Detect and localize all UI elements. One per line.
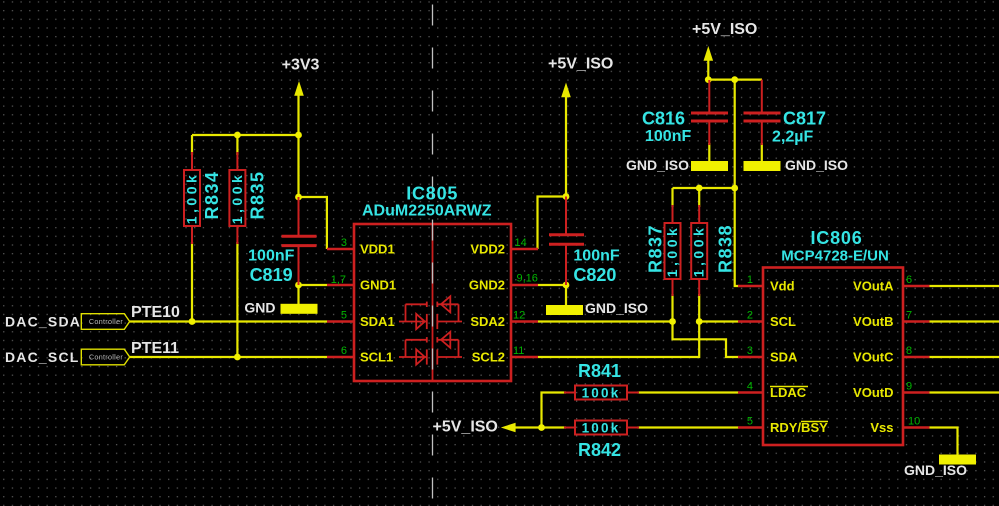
svg-text:1,00k: 1,00k: [229, 172, 245, 225]
svg-text:SCL: SCL: [770, 314, 796, 329]
IC806 pin 5 RDY/BSY stub: [738, 426, 763, 429]
resistor R838: [691, 205, 707, 296]
svg-text:14: 14: [515, 237, 527, 249]
isolator channel SDA diodes: [399, 296, 462, 329]
svg-text:C817: C817: [783, 109, 826, 129]
svg-text:VOutD: VOutD: [853, 385, 893, 400]
resistor R842: [564, 421, 639, 435]
svg-text:5: 5: [747, 416, 753, 428]
wire +3V3 stem: [297, 95, 299, 197]
capacitor C819: [282, 197, 317, 285]
svg-text:Controller: Controller: [89, 353, 123, 362]
wire C817 bottom to bar: [761, 143, 763, 162]
svg-text:10: 10: [908, 416, 920, 428]
svg-text:VOutC: VOutC: [853, 350, 894, 365]
svg-text:6: 6: [341, 345, 347, 357]
svg-text:GND_ISO: GND_ISO: [626, 157, 689, 173]
IC805 pin 14 VDD2 stub: [511, 248, 538, 251]
wire +3V3 to VDD1: [299, 197, 327, 249]
svg-text:R842: R842: [578, 440, 621, 460]
power +3V3 arrow: [294, 81, 304, 96]
svg-text:+3V3: +3V3: [282, 57, 320, 74]
wire GND2 to GND_ISO: [538, 284, 566, 286]
resistor R835: [229, 152, 245, 244]
resistor R834: [184, 152, 200, 244]
wire +5V_ISO to R842 left: [514, 426, 566, 428]
svg-text:100k: 100k: [582, 421, 621, 436]
svg-text:GND1: GND1: [360, 278, 396, 293]
junction +5V_ISO arrow/top horizontal: [705, 76, 712, 83]
svg-text:+5V_ISO: +5V_ISO: [548, 55, 613, 72]
svg-text:C819: C819: [250, 265, 293, 285]
IC806 pin 8 VOutC stub: [903, 356, 930, 359]
wire VOutD: [930, 391, 999, 393]
wire +5V_ISO top stem: [707, 61, 709, 80]
isolation barrier dashed line: [432, 0, 434, 506]
wire R838 bottom segment: [698, 294, 700, 322]
IC805 pin 6 SCL1 stub: [327, 356, 354, 359]
svg-text:SCL2: SCL2: [472, 350, 505, 365]
svg-text:8: 8: [906, 345, 912, 357]
IC805 pin 1,7 GND1 stub: [327, 284, 354, 287]
svg-text:Vss: Vss: [870, 420, 893, 435]
wire VDD2 to +5V_ISO: [538, 197, 567, 250]
wire VOutA: [930, 285, 999, 287]
svg-text:7: 7: [906, 310, 912, 322]
svg-text:9: 9: [906, 381, 912, 393]
svg-text:GND_ISO: GND_ISO: [904, 462, 967, 478]
IC806 pin 6 VOutA stub: [903, 285, 930, 288]
svg-text:GND2: GND2: [469, 278, 505, 293]
junction C820 bottom / GND2: [563, 282, 570, 289]
IC805 pin 5 SDA1 stub: [327, 320, 354, 323]
IC806 pin 3 SDA stub: [738, 356, 763, 359]
wire PTE10 net: [130, 320, 327, 322]
junction top horizontal/main vertical: [731, 76, 738, 83]
svg-text:100k: 100k: [582, 386, 621, 401]
svg-text:Controller: Controller: [89, 317, 123, 326]
controller tag PTE10 flag: [81, 314, 129, 330]
junction C819 top: [295, 194, 302, 201]
resistor R841: [564, 386, 639, 400]
svg-text:R835: R835: [248, 170, 268, 219]
junction SCL2/R838: [696, 318, 703, 325]
IC805 pin 12 SDA2 stub: [511, 320, 538, 323]
wire R838 top segment: [698, 188, 700, 207]
wire Vss to GND_ISO: [930, 428, 958, 456]
svg-text:GND_ISO: GND_ISO: [585, 300, 648, 316]
IC805 pin 3 VDD1 stub: [327, 248, 354, 251]
IC806 pin 10 Vss stub: [903, 426, 930, 429]
wire R835 top lead segment: [236, 135, 238, 155]
svg-text:VDD1: VDD1: [360, 242, 395, 257]
svg-text:100nF: 100nF: [645, 128, 691, 145]
wire SCL2 net: [538, 322, 699, 358]
junction R835 top feed: [234, 132, 241, 139]
svg-text:C816: C816: [642, 109, 685, 129]
junction C820 top: [563, 193, 570, 200]
IC806 pin 2 SCL stub: [738, 320, 763, 323]
ground GND bar: [281, 304, 318, 314]
capacitor C820: [549, 197, 584, 286]
svg-text:SDA1: SDA1: [360, 314, 395, 329]
IC806 pin 7 VOutB stub: [903, 320, 930, 323]
junction feed/main vertical: [731, 185, 738, 192]
svg-text:ADuM2250ARWZ: ADuM2250ARWZ: [362, 203, 492, 220]
power +5V_ISO arrow at R842 pointing left: [501, 423, 516, 433]
svg-text:R838: R838: [716, 224, 736, 273]
svg-text:R834: R834: [202, 170, 222, 219]
svg-text:C820: C820: [573, 265, 616, 285]
wire C816 bottom to bar: [708, 143, 710, 162]
junction PTE11/R835: [234, 354, 241, 361]
svg-text:+5V_ISO: +5V_ISO: [433, 419, 498, 436]
power +5V_ISO arrow at C820: [561, 83, 571, 98]
svg-text:4: 4: [747, 381, 753, 393]
svg-text:2: 2: [747, 310, 753, 322]
svg-text:VOutA: VOutA: [853, 279, 894, 294]
wire C819 to GND1: [299, 284, 328, 286]
svg-text:GND: GND: [244, 300, 275, 316]
ground GND_ISO bar at Vss: [939, 455, 976, 465]
svg-text:100nF: 100nF: [248, 248, 294, 265]
junction C819 bottom / GND1: [295, 282, 302, 289]
wire pullup feed horizontal: [673, 187, 735, 189]
IC806 pin 4 LDAC stub: [738, 391, 763, 394]
junction PTE10/R834: [189, 318, 196, 325]
wire VOutB: [930, 320, 999, 322]
ground GND_ISO bar at C820: [546, 305, 583, 315]
svg-text:IC806: IC806: [811, 228, 863, 248]
wire R837 top segment: [671, 188, 673, 207]
wire +5V_ISO stem at C820: [565, 97, 567, 197]
junction R841/R842 +5V_ISO: [538, 424, 545, 431]
wire SCL2 to IC806 SCL: [699, 320, 738, 322]
svg-text:+5V_ISO: +5V_ISO: [692, 21, 757, 38]
IC805 pin 9,16 GND2 stub: [511, 284, 538, 287]
svg-text:3: 3: [747, 345, 753, 357]
IC805 box: [354, 224, 511, 381]
junction SDA2/R837: [669, 318, 676, 325]
power +5V_ISO arrow top right: [704, 46, 714, 61]
svg-text:Vdd: Vdd: [770, 279, 795, 294]
svg-text:1,7: 1,7: [331, 274, 346, 286]
wire R837 bottom segment: [671, 294, 673, 322]
wire VOutC: [930, 356, 999, 358]
svg-text:1,00k: 1,00k: [691, 225, 707, 278]
svg-text:1,00k: 1,00k: [664, 225, 680, 278]
svg-text:9,16: 9,16: [517, 273, 538, 285]
svg-text:R837: R837: [646, 224, 666, 273]
wire R835 bottom segment to PTE11: [236, 242, 238, 357]
resistor R837: [665, 205, 681, 296]
wire R841 left elbow: [542, 393, 567, 428]
ground GND_ISO bar at C817: [744, 161, 781, 171]
wire SDA2 jog to IC806 SDA: [673, 322, 739, 358]
IC805 center barrier line: [432, 224, 434, 381]
svg-text:SCL1: SCL1: [360, 350, 393, 365]
wire C820 bottom to GND_ISO bar: [565, 285, 567, 305]
svg-text:MCP4728-E/UN: MCP4728-E/UN: [781, 247, 889, 264]
svg-text:1,00k: 1,00k: [184, 172, 200, 225]
junction R838 feed: [696, 185, 703, 192]
wire +3V3 feed horizontal: [192, 134, 299, 136]
isolator channel SCL diodes: [399, 332, 462, 365]
svg-text:GND_ISO: GND_ISO: [785, 157, 848, 173]
svg-text:VDD2: VDD2: [470, 242, 505, 257]
ground GND_ISO bar at C816: [691, 161, 728, 171]
svg-text:11: 11: [513, 345, 524, 357]
wire PTE11 net: [130, 356, 327, 358]
wire R834 bottom segment to PTE10: [191, 242, 193, 322]
IC806 pin 1 Vdd stub: [738, 285, 763, 288]
capacitor C816: [691, 80, 728, 145]
wire RDY/BSY to R842: [638, 426, 739, 428]
svg-text:PTE11: PTE11: [131, 340, 179, 357]
svg-text:6: 6: [906, 274, 912, 286]
IC806 pin 9 VOutD stub: [903, 391, 930, 394]
svg-text:DAC_SDA: DAC_SDA: [5, 314, 81, 330]
svg-text:VOutB: VOutB: [853, 314, 893, 329]
svg-text:PTE10: PTE10: [131, 304, 180, 321]
IC806 box: [763, 268, 903, 446]
junction +3V3 feed: [295, 132, 302, 139]
controller tag PTE11 flag: [81, 349, 129, 365]
capacitor C817: [744, 80, 781, 145]
wire +5V_ISO top horizontal: [708, 78, 762, 80]
wire C819 to GND bar: [297, 285, 299, 304]
wire +5V_ISO main vertical to Vdd: [735, 80, 739, 286]
svg-text:DAC_SCL: DAC_SCL: [5, 349, 80, 365]
svg-text:2,2µF: 2,2µF: [772, 129, 813, 146]
svg-text:12: 12: [513, 310, 525, 322]
svg-text:R841: R841: [578, 361, 621, 381]
svg-text:IC805: IC805: [406, 184, 458, 204]
svg-text:1: 1: [747, 274, 753, 286]
svg-text:SDA: SDA: [770, 350, 798, 365]
svg-text:100nF: 100nF: [573, 248, 619, 265]
IC805 pin 11 SCL2 stub: [511, 356, 538, 359]
svg-text:3: 3: [341, 237, 347, 249]
wire SDA2 net: [538, 320, 673, 322]
svg-text:SDA2: SDA2: [470, 314, 505, 329]
wire R834 top lead segment: [191, 135, 193, 155]
svg-text:5: 5: [341, 310, 347, 322]
wire LDAC to R841: [638, 391, 739, 393]
